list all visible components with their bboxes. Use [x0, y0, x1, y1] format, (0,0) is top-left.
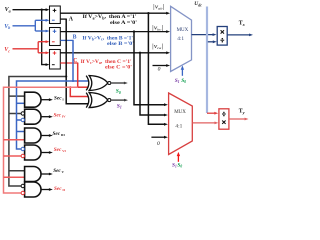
wire C branch down	[77, 63, 79, 87]
comparator U1 (Va vs Vb)	[50, 6, 61, 24]
mux U4 4:1 top	[171, 6, 192, 71]
wire red bus branch gate3	[4, 139, 25, 141]
TEXT BLOCKS	[81, 14, 138, 70]
divider-multiplier U7	[219, 109, 229, 129]
svg-text:|vbc|: |vbc|	[152, 26, 164, 32]
svg-text:Sec III: Sec III	[53, 131, 66, 137]
svg-text:4:1: 4:1	[175, 124, 182, 130]
node junction B-bus	[72, 80, 74, 82]
svg-text:Vc: Vc	[4, 47, 10, 53]
wire Vc to comp3 plus	[38, 52, 47, 54]
wire select arrow mux2	[177, 155, 179, 162]
wire mux2 output	[192, 122, 215, 124]
wire black bus branch gate5	[9, 170, 25, 172]
wire blue bus branch gate3	[17, 131, 25, 133]
wire Udc tap to divider	[208, 41, 214, 43]
wire blue bus branch gate1	[17, 102, 25, 104]
wire comp3 output C branch	[60, 62, 78, 64]
svg-text:MUX: MUX	[177, 28, 189, 33]
svg-text:0: 0	[158, 67, 161, 73]
svg-text:Sec IV: Sec IV	[54, 113, 67, 119]
wire Vb horizontal	[13, 25, 36, 27]
svg-text:C: C	[73, 58, 77, 64]
svg-text:Va: Va	[5, 7, 11, 13]
mux U6 4:1 bottom	[169, 93, 193, 155]
svg-text:S0: S0	[116, 89, 121, 95]
MUX2 BOTTOM	[151, 93, 248, 169]
wire B to left bus	[17, 81, 74, 149]
wire V3 from wire1 down to MUX2 input3	[148, 13, 165, 124]
svg-text:|vca|: |vca|	[152, 44, 164, 50]
and gate G6 SecVI	[25, 145, 41, 160]
multiplier-divider U5	[217, 27, 227, 46]
MUX1 TOP	[152, 1, 253, 113]
wire black bus branch gate2	[9, 113, 21, 115]
wire comp2 output to MUX1 input2	[60, 31, 167, 33]
wire 0 input mux2	[151, 136, 165, 138]
wire S0 out	[111, 82, 125, 84]
node Va junction	[41, 9, 43, 11]
svg-text:Sec II: Sec II	[54, 186, 66, 192]
wire select arrow mux1	[181, 69, 183, 76]
wire blue bus branch gate2	[17, 119, 21, 121]
wire B branch down	[72, 40, 74, 81]
svg-text:Udc: Udc	[194, 1, 202, 7]
wire comp1 output A branch	[60, 18, 67, 20]
svg-text:S1: S1	[172, 162, 177, 168]
wire A branch down	[66, 19, 88, 104]
svg-text:else A ='0': else A ='0'	[110, 20, 138, 26]
wire comp2 output B branch	[60, 39, 73, 41]
svg-text:|vab|: |vab|	[153, 4, 165, 10]
and gate G7 SecV	[25, 167, 41, 182]
wire Tx output	[227, 34, 250, 36]
and gate G4 SecIV	[25, 109, 41, 124]
wire C to XNOR1 input	[78, 86, 89, 88]
svg-text:MUX: MUX	[174, 110, 186, 115]
wire Vb vertical jog	[34, 20, 36, 31]
svg-text:Vb: Vb	[4, 24, 10, 30]
svg-text:A: A	[69, 17, 74, 23]
comparator U2 (Vb vs Vc)	[50, 28, 61, 46]
and gate G3 SecI	[25, 92, 41, 107]
wire comp1 output to MUX1 input1	[60, 12, 167, 14]
MIDDLE VERTICALS	[4, 13, 168, 193]
wire 0 input mux1	[153, 65, 168, 67]
wire Vc to comp2 minus	[38, 41, 47, 43]
wire Vc vertical jog	[37, 42, 39, 53]
svg-text:Tx: Tx	[239, 21, 246, 27]
svg-text:Sec I: Sec I	[54, 95, 64, 101]
xnor gate G2 (S1)	[86, 93, 89, 108]
node junction C jog	[69, 86, 71, 88]
svg-text:else C ='0': else C ='0'	[105, 64, 133, 70]
svg-text:S1: S1	[117, 104, 122, 110]
COMPARATOR SECTION	[50, 6, 171, 69]
wire black bus branch gate1	[9, 95, 25, 97]
xnor gate G1 (S0)	[86, 76, 89, 91]
svg-text:Ty: Ty	[239, 109, 245, 115]
node junction wire2/V1	[133, 30, 135, 32]
wire Udc vertical	[206, 7, 208, 114]
AND GATES	[21, 92, 66, 197]
and gate G8 SecII	[25, 182, 41, 197]
wire Va down branch to comp3 minus	[42, 10, 47, 65]
wire A to left bus	[9, 77, 66, 187]
wire V1 from wire2 down to MUX2 input1	[134, 32, 165, 105]
wire red bus branch gate5	[4, 176, 25, 178]
node junction wire1/V3	[147, 12, 149, 14]
svg-text:S1: S1	[175, 78, 180, 84]
comparator U3 (Vc vs Va)	[50, 50, 61, 70]
wire Vc horizontal	[13, 48, 39, 50]
svg-text:S0: S0	[181, 78, 186, 84]
node junction wire3/V2	[139, 52, 141, 54]
wire V2 from wire3 down to MUX2 input2	[140, 53, 165, 115]
wire C to left bus	[4, 87, 78, 193]
INPUT SECTION	[4, 7, 49, 66]
wire S1 out	[111, 99, 125, 101]
wire mux1 output	[192, 34, 214, 36]
svg-text:B: B	[73, 35, 77, 41]
wire Va horizontal	[13, 9, 47, 11]
wire B to XNOR1 input	[73, 80, 89, 82]
wire Vb to comp1 minus	[35, 19, 47, 21]
and gate G5 SecIII	[25, 128, 41, 143]
wire Vb to comp2 plus	[35, 30, 47, 32]
wire red bus branch gate4	[4, 155, 21, 157]
svg-text:Sec VI: Sec VI	[54, 147, 67, 153]
wire C jog to XNOR2 input	[70, 87, 88, 96]
wire comp3 output to MUX1 input3	[60, 52, 167, 54]
node junction A-bus	[65, 75, 67, 77]
svg-text:4:1: 4:1	[177, 36, 184, 42]
svg-text:0: 0	[157, 141, 160, 147]
svg-text:Sec V: Sec V	[53, 168, 64, 174]
XNOR SECTION	[86, 76, 128, 110]
wire Udc to divider2	[207, 112, 216, 114]
svg-text:S0: S0	[177, 162, 182, 168]
svg-text:else B ='0': else B ='0'	[107, 41, 135, 47]
wire Ty output	[229, 118, 246, 120]
